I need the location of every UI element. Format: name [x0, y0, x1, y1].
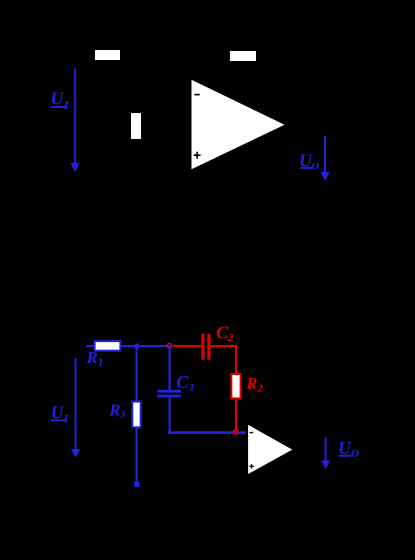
svg-text:O: O: [351, 448, 359, 460]
arrow U_O (bottom): [321, 438, 330, 469]
wire R3 bottom to terminal (blue, vertical): [136, 427, 138, 482]
label U_O (bottom): [338, 438, 359, 460]
arrow U_I (bottom): [71, 358, 80, 458]
label U_O (top): [299, 150, 319, 172]
svg-text:3: 3: [119, 408, 126, 420]
wire R2 bottom to junction (red, vertical): [235, 399, 237, 430]
svg-text:O: O: [311, 160, 319, 172]
arrow U_I (top): [71, 69, 80, 173]
label U_I (bottom): [51, 403, 69, 426]
svg-text:2: 2: [227, 332, 234, 344]
wire node ring down to C1 (blue, vertical): [169, 346, 171, 391]
label U_I (top): [51, 89, 70, 112]
wire R1 to node A (blue, horizontal): [121, 345, 170, 347]
label R1: [86, 348, 104, 369]
svg-text:2: 2: [257, 382, 264, 394]
svg-text:1: 1: [98, 357, 104, 369]
junction dot node A: [134, 344, 139, 349]
wire C2 to R2 top (red, right then down): [211, 345, 238, 373]
capacitor C2 (red, vertical plates): [201, 334, 210, 360]
capacitor C1 (blue, horizontal plates): [157, 390, 181, 397]
svg-text:1: 1: [189, 382, 195, 394]
resistor R2 (feedback horizontal, white): [230, 51, 256, 61]
node ring (red open circle): [167, 343, 171, 347]
resistor R1 (blue box): [95, 341, 121, 351]
terminal dot (blue square): [134, 482, 139, 487]
resistor R3 (vertical, white): [131, 113, 141, 139]
svg-text:R: R: [245, 374, 257, 393]
resistor R3 (blue box): [132, 402, 140, 428]
wire node A down to R3 (blue, vertical): [136, 346, 138, 401]
label C1: [176, 372, 194, 394]
svg-text:C: C: [176, 372, 189, 392]
op-amp U1: [192, 80, 285, 169]
label C2: [216, 323, 234, 344]
wire input to R1 (blue, horizontal): [86, 345, 94, 347]
svg-text:I: I: [63, 413, 69, 425]
resistor R1 (top horizontal, white): [95, 50, 120, 60]
svg-text:U: U: [51, 89, 65, 109]
arrow U_O (top): [321, 136, 330, 181]
op-amp U2: [248, 425, 292, 474]
svg-text:R: R: [86, 348, 98, 367]
wire node to C2 (red): [173, 345, 201, 347]
label R2: [245, 374, 263, 395]
resistor R2 (red box): [231, 374, 240, 398]
junction dot (red square): [233, 430, 238, 435]
wire C1 bottom to bottom rail (blue, vertical): [169, 397, 171, 433]
bottom rail wire to op-amp (blue, horizontal): [168, 431, 246, 434]
label R3: [108, 400, 125, 420]
